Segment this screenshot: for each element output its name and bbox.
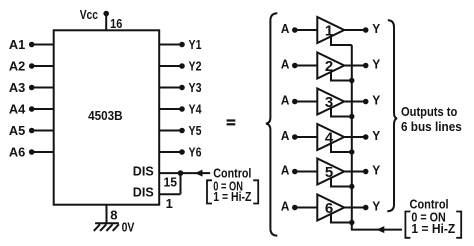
wire A2 to IC pin xyxy=(32,65,54,67)
wire A1 to IC pin xyxy=(32,44,54,46)
junction dot enable 5 xyxy=(349,184,354,189)
buffer 5 output wire xyxy=(344,171,366,173)
buffer 6 enable wire xyxy=(331,214,352,223)
svg-text:A: A xyxy=(281,199,290,214)
control wire bottom horizontal xyxy=(351,229,402,231)
junction dot pin15/pin1 tie xyxy=(178,170,184,176)
buffer 6 input wire xyxy=(295,207,318,209)
node Vcc dot xyxy=(103,11,109,17)
svg-text:A1: A1 xyxy=(9,37,25,52)
svg-text:Y5: Y5 xyxy=(189,123,202,138)
node Y3 dot xyxy=(179,85,185,91)
buffer 3 node A dot xyxy=(292,99,298,105)
buffer 1 enable wire xyxy=(331,36,352,45)
buffer 3 node Y dot xyxy=(363,99,369,105)
junction dot enable 2 xyxy=(349,78,354,83)
svg-text:Y2: Y2 xyxy=(189,58,202,73)
svg-text:A: A xyxy=(281,163,290,178)
svg-text:Y1: Y1 xyxy=(189,37,202,52)
buffer 2 input wire xyxy=(295,65,318,67)
buffer U1a triangle 1 xyxy=(317,17,344,43)
svg-text:4503B: 4503B xyxy=(88,108,123,123)
buffer 1 input wire xyxy=(295,29,318,31)
buffer 5 node Y dot xyxy=(363,169,369,175)
wire IC pin to Y6 xyxy=(159,151,182,153)
enable bus wire vertical xyxy=(351,45,353,230)
svg-text:Y: Y xyxy=(372,93,380,108)
svg-text:Y: Y xyxy=(372,199,380,214)
buffer 4 node A dot xyxy=(292,134,298,140)
svg-text:16: 16 xyxy=(110,16,122,31)
svg-text:DIS: DIS xyxy=(133,184,154,199)
wire IC pin to Y5 xyxy=(159,130,182,132)
buffer 5 node A dot xyxy=(292,169,298,175)
buffer 3 enable wire xyxy=(331,108,352,117)
bracket [ right control xyxy=(405,212,410,238)
node A2 dot xyxy=(29,63,35,69)
buffer 2 node Y dot xyxy=(363,63,369,69)
svg-text:6 bus lines: 6 bus lines xyxy=(401,119,462,134)
wire IC pin to Y4 xyxy=(159,108,182,110)
buffer U1e triangle 5 xyxy=(317,159,344,185)
buffer 6 output wire xyxy=(344,207,366,209)
svg-text:Y: Y xyxy=(372,21,380,36)
svg-text:8: 8 xyxy=(110,208,117,223)
wire A4 to IC pin xyxy=(32,108,54,110)
buffer U1f triangle 6 xyxy=(317,195,344,221)
IC U1 4503B body xyxy=(54,30,160,204)
wire pin 1 xyxy=(159,193,180,195)
buffer U1c triangle 3 xyxy=(317,89,344,115)
node A3 dot xyxy=(29,85,35,91)
svg-text:1 = Hi-Z: 1 = Hi-Z xyxy=(213,189,251,204)
buffer 5 enable wire xyxy=(331,178,352,187)
svg-text:A: A xyxy=(281,128,290,143)
svg-text:A: A xyxy=(281,21,290,36)
svg-text:1 = Hi-Z: 1 = Hi-Z xyxy=(411,221,455,236)
svg-text:Y: Y xyxy=(372,128,380,143)
wire IC pin to Y1 xyxy=(159,44,182,46)
buffer 2 enable wire xyxy=(331,72,352,81)
bracket ] left control xyxy=(253,180,258,203)
buffer 3 output wire xyxy=(344,101,366,103)
node Y4 dot xyxy=(179,106,185,112)
wire A3 to IC pin xyxy=(32,87,54,89)
buffer 2 node A dot xyxy=(292,63,298,69)
node A4 dot xyxy=(29,106,35,112)
buffer 5 input wire xyxy=(295,171,318,173)
wire pin 8 to ground xyxy=(106,205,108,223)
buffer U1d triangle 4 xyxy=(317,124,344,150)
node Y5 dot xyxy=(179,128,185,134)
node Y6 dot xyxy=(179,149,185,155)
node Y2 dot xyxy=(179,63,185,69)
buffer 3 input wire xyxy=(295,101,318,103)
svg-text:A6: A6 xyxy=(9,145,25,160)
svg-text:Outputs to: Outputs to xyxy=(401,104,457,119)
wire pin 15 to control arrow xyxy=(159,172,210,174)
wire A5 to IC pin xyxy=(32,130,54,132)
equals sign xyxy=(227,119,236,125)
svg-text:DIS: DIS xyxy=(133,164,154,179)
junction dot enable 3 xyxy=(349,114,354,119)
buffer 1 output wire xyxy=(344,29,366,31)
buffer 1 node Y dot xyxy=(363,27,369,33)
svg-text:Y6: Y6 xyxy=(189,144,202,159)
svg-text:A5: A5 xyxy=(9,123,25,138)
left brace of equivalent circuit xyxy=(266,13,277,235)
bracket ] right control xyxy=(456,212,461,238)
buffer 4 output wire xyxy=(344,136,366,138)
junction dot enable 4 xyxy=(349,149,354,154)
wire pin15 to pin1 vertical xyxy=(180,173,182,194)
svg-text:4: 4 xyxy=(325,130,334,147)
buffer 4 enable wire xyxy=(331,143,352,152)
wire Vcc to pin 16 xyxy=(105,14,107,31)
buffer 1 node A dot xyxy=(292,27,298,33)
node A1 dot xyxy=(29,42,35,48)
wire IC pin to Y3 xyxy=(159,87,182,89)
svg-text:Y: Y xyxy=(372,57,380,72)
node Y1 dot xyxy=(179,42,185,48)
buffer U1b triangle 2 xyxy=(317,53,344,79)
bracket [ left control xyxy=(207,180,212,203)
control arrowhead left xyxy=(195,170,203,177)
svg-text:15: 15 xyxy=(164,174,178,189)
buffer 4 node Y dot xyxy=(363,134,369,140)
svg-text:Y4: Y4 xyxy=(189,101,203,116)
junction dot enable 6 xyxy=(349,220,354,225)
svg-text:0V: 0V xyxy=(122,219,135,234)
buffer 6 node Y dot xyxy=(363,205,369,211)
svg-text:Vcc: Vcc xyxy=(80,7,98,22)
right brace outputs group xyxy=(387,20,397,211)
svg-text:1: 1 xyxy=(166,196,173,211)
svg-text:Y3: Y3 xyxy=(189,80,202,95)
node A6 dot xyxy=(29,149,35,155)
node A5 dot xyxy=(29,128,35,134)
buffer 2 output wire xyxy=(344,65,366,67)
wire A6 to IC pin xyxy=(32,151,54,153)
svg-text:Y: Y xyxy=(372,163,380,178)
control arrowhead bottom xyxy=(376,226,384,233)
svg-text:A2: A2 xyxy=(9,59,25,74)
svg-text:A3: A3 xyxy=(9,80,25,95)
svg-text:A4: A4 xyxy=(9,102,26,117)
svg-text:A: A xyxy=(281,57,290,72)
ground symbol xyxy=(94,223,119,231)
wire IC pin to Y2 xyxy=(159,65,182,67)
buffer 6 node A dot xyxy=(292,205,298,211)
svg-text:A: A xyxy=(281,93,290,108)
buffer 4 input wire xyxy=(295,136,318,138)
